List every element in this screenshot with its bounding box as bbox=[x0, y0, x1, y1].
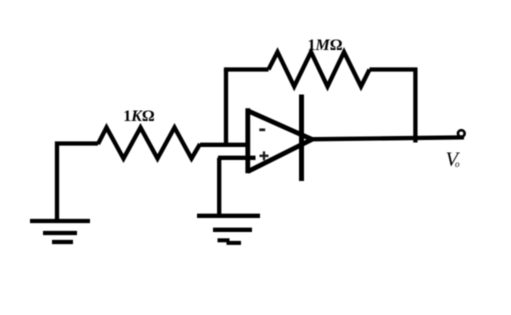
resistor R1 1KΩ bbox=[98, 128, 200, 159]
svg-text:1KΩ: 1KΩ bbox=[123, 108, 155, 125]
ground GND1 (left input ground) bbox=[30, 144, 98, 243]
wire output bbox=[307, 137, 464, 139]
op-amp plus input marker bbox=[260, 151, 269, 160]
ground GND2 (op-amp + input ground) bbox=[197, 216, 260, 243]
output terminal (open circle) bbox=[458, 130, 465, 137]
wire R1 to op-amp inverting input bbox=[200, 143, 249, 147]
svg-text:o: o bbox=[455, 159, 460, 169]
resistor R2 1MΩ (feedback) bbox=[269, 52, 370, 87]
wire feedback vertical (node A junction) bbox=[224, 70, 228, 147]
wire down to GND2 bbox=[217, 158, 221, 215]
op-amp output stage vertical bar bbox=[299, 95, 304, 182]
svg-text:1MΩ: 1MΩ bbox=[307, 37, 342, 54]
wire feedback top bbox=[224, 67, 269, 71]
op-amp U1 triangle bbox=[248, 108, 312, 173]
wire R2 to right corner bbox=[370, 67, 418, 71]
wire right vertical down to output bbox=[413, 70, 417, 143]
wire non-inverting input bbox=[218, 156, 256, 160]
op-amp minus input marker bbox=[259, 128, 265, 131]
